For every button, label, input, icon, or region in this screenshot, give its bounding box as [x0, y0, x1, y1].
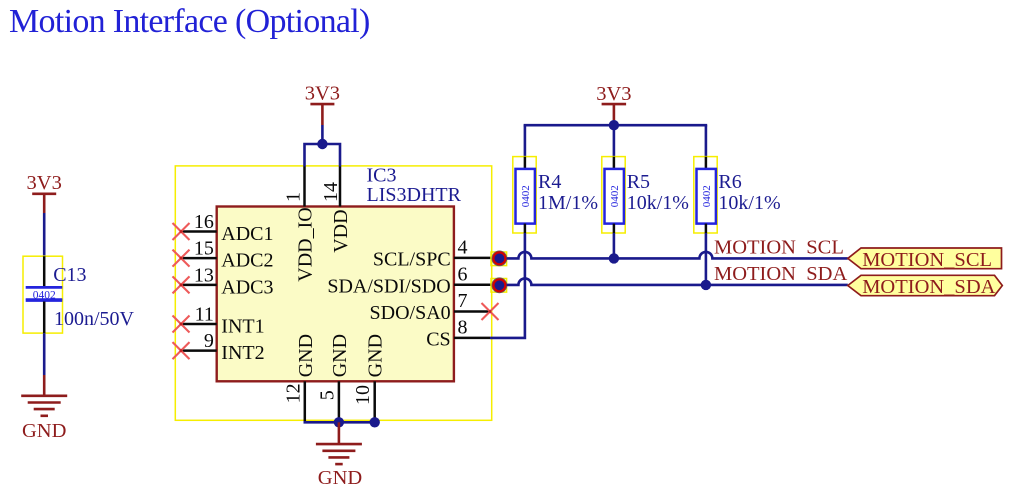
svg-text:5: 5	[316, 390, 338, 400]
supply 3V3 (above IC)	[305, 82, 340, 125]
svg-text:Motion Interface (Optional): Motion Interface (Optional)	[9, 3, 370, 40]
svg-text:16: 16	[194, 211, 214, 233]
svg-text:SDA/SDI/SDO: SDA/SDI/SDO	[327, 275, 450, 297]
pin 7 SDO/SA0	[370, 290, 499, 324]
svg-text:10k/1%: 10k/1%	[627, 192, 689, 214]
svg-text:INT1: INT1	[221, 315, 264, 337]
svg-text:0402: 0402	[33, 289, 56, 301]
pin-connection circle pin6	[491, 278, 507, 293]
svg-text:12: 12	[282, 383, 304, 403]
wire C13 to GND	[43, 333, 46, 375]
svg-text:3V3: 3V3	[27, 172, 62, 194]
wire pullup rail	[524, 120, 708, 156]
svg-text:ADC2: ADC2	[221, 250, 273, 272]
wire GND bus under IC	[304, 421, 377, 424]
svg-text:ADC3: ADC3	[221, 276, 273, 298]
net flag MOTION_SDA	[848, 275, 1003, 298]
ground GND (left)	[21, 375, 67, 442]
wire R6 to SDA	[705, 233, 708, 285]
svg-text:LIS3DHTR: LIS3DHTR	[367, 184, 462, 206]
pin 9 INT2	[173, 330, 265, 364]
svg-text:14: 14	[320, 182, 342, 202]
pin 4 SCL/SPC	[373, 236, 491, 270]
capacitor C13	[23, 256, 63, 333]
svg-text:GND: GND	[329, 334, 351, 377]
junction	[334, 417, 344, 427]
net flag MOTION_SCL	[848, 248, 1002, 271]
junction	[701, 280, 711, 290]
svg-text:100n/50V: 100n/50V	[54, 308, 135, 330]
wire R5 to SCL	[613, 233, 616, 258]
svg-text:15: 15	[194, 238, 214, 260]
svg-text:SCL/SPC: SCL/SPC	[373, 248, 451, 270]
svg-text:ADC1: ADC1	[221, 223, 273, 245]
svg-text:11: 11	[195, 303, 214, 325]
svg-text:GND: GND	[295, 334, 317, 377]
pin 13 ADC3	[173, 264, 274, 298]
pin-connection circle pin4	[491, 251, 507, 266]
wire 3V3 to C13	[43, 213, 46, 257]
junction	[609, 120, 619, 130]
supply 3V3 (above R5)	[596, 83, 631, 120]
svg-text:4: 4	[458, 236, 468, 258]
resistor R4	[513, 157, 536, 233]
svg-text:0402: 0402	[609, 185, 621, 207]
svg-text:R6: R6	[718, 171, 741, 193]
pin 6 SDA/SDI/SDO	[327, 263, 490, 297]
svg-text:3V3: 3V3	[305, 82, 340, 104]
junction	[609, 253, 619, 263]
svg-text:R4: R4	[538, 171, 561, 193]
junction	[317, 139, 327, 149]
supply 3V3 (left, above C13)	[27, 172, 62, 213]
svg-text:10k/1%: 10k/1%	[718, 192, 780, 214]
svg-text:7: 7	[458, 290, 468, 312]
svg-text:9: 9	[204, 330, 214, 352]
svg-text:R5: R5	[627, 171, 650, 193]
op-amp? no: IC body LIS3DHTR	[217, 207, 454, 382]
svg-text:13: 13	[194, 264, 214, 286]
ground GND (under IC)	[316, 422, 362, 489]
svg-text:6: 6	[458, 263, 468, 285]
junction	[370, 417, 380, 427]
pin 10 GND	[352, 334, 387, 421]
svg-text:C13: C13	[53, 264, 86, 286]
pin 11 INT1	[173, 303, 265, 337]
svg-text:IC3: IC3	[367, 164, 397, 186]
svg-text:GND: GND	[365, 334, 387, 377]
svg-text:1M/1%: 1M/1%	[538, 192, 598, 214]
wire 3V3 stub to loop	[321, 125, 324, 144]
resistor R5	[602, 157, 625, 233]
pin 5 GND	[316, 334, 351, 421]
svg-text:8: 8	[458, 316, 468, 338]
resistor R6	[694, 157, 717, 233]
svg-text:MOTION SDA: MOTION SDA	[714, 263, 847, 285]
svg-text:INT2: INT2	[221, 342, 264, 364]
svg-text:10: 10	[352, 385, 374, 405]
svg-text:MOTION_SDA: MOTION_SDA	[862, 276, 995, 298]
pin 14 VDD	[320, 167, 352, 253]
svg-text:SDO/SA0: SDO/SA0	[370, 302, 451, 324]
svg-text:MOTION SCL: MOTION SCL	[714, 237, 844, 259]
svg-text:0402: 0402	[520, 185, 532, 207]
svg-text:GND: GND	[22, 420, 66, 442]
svg-text:VDD: VDD	[330, 209, 352, 252]
svg-text:CS: CS	[426, 328, 450, 350]
wire R4 to CS	[490, 233, 525, 338]
wire net MOTION_SDA	[507, 278, 848, 285]
svg-text:MOTION_SCL: MOTION_SCL	[862, 249, 992, 271]
pin 15 ADC2	[173, 238, 274, 272]
wire VDD loop	[305, 144, 341, 167]
svg-text:3V3: 3V3	[596, 83, 631, 105]
pin 1 VDD_IO	[283, 167, 317, 282]
wire net MOTION_SCL	[507, 252, 848, 259]
svg-text:1: 1	[283, 192, 305, 202]
pin 8 CS	[426, 316, 490, 350]
svg-text:GND: GND	[318, 467, 362, 489]
pin 16 ADC1	[173, 211, 274, 245]
svg-text:VDD_IO: VDD_IO	[295, 207, 317, 281]
IC3 symbol frame	[175, 166, 491, 420]
pin 12 GND	[282, 334, 317, 421]
svg-text:0402: 0402	[701, 185, 713, 207]
